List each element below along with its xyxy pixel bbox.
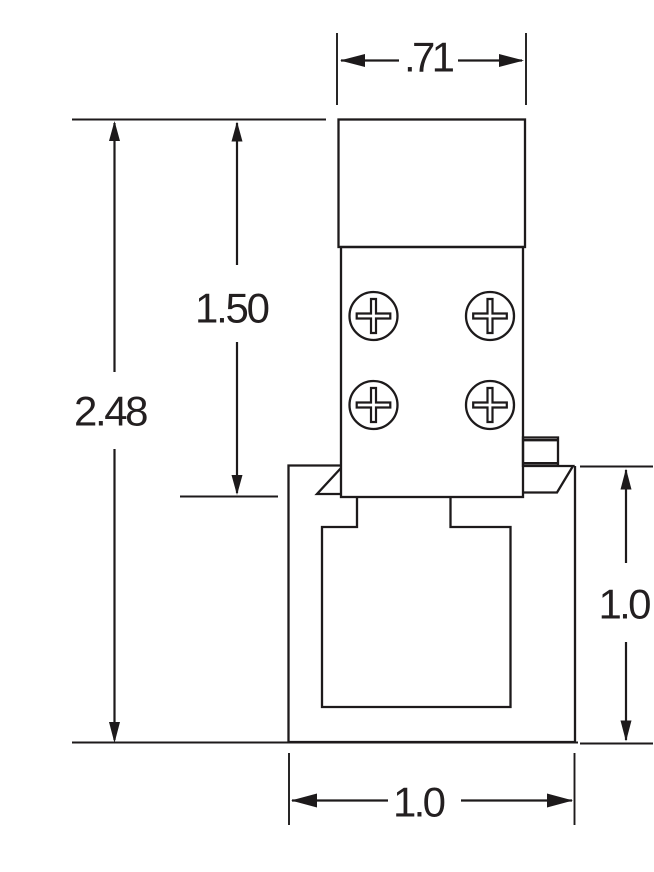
svg-text:1.50: 1.50	[195, 285, 270, 332]
svg-text:1.0: 1.0	[599, 581, 652, 628]
svg-text:1.0: 1.0	[393, 779, 446, 826]
svg-text:.71: .71	[404, 34, 455, 81]
svg-text:2.48: 2.48	[74, 388, 149, 435]
